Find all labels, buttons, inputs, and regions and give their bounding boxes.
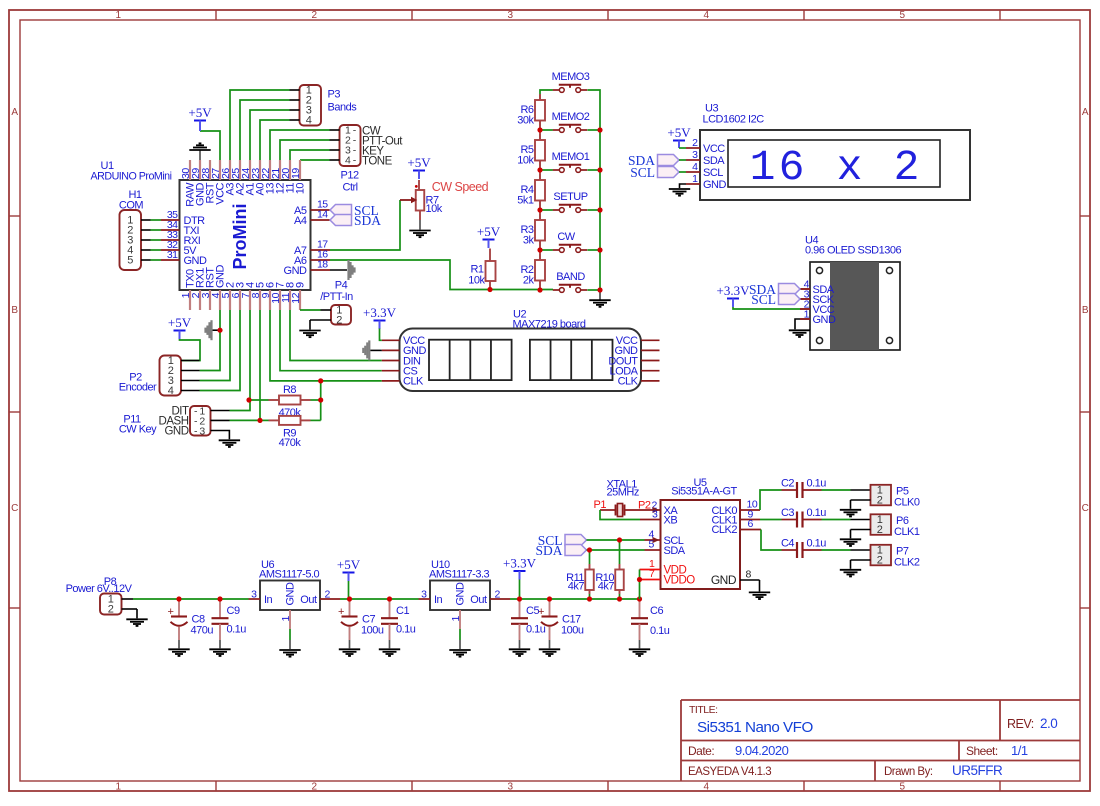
ground [189,143,210,160]
wire [151,220,162,260]
connector P4 /PTT-In [310,280,353,327]
svg-text:Si5351 Nano VFO: Si5351 Nano VFO [697,719,813,736]
push button CW [553,231,587,253]
capacitor C8 [168,599,214,640]
svg-text:C6: C6 [650,605,663,617]
svg-text:+5V: +5V [667,125,691,140]
svg-text:SDA: SDA [703,155,725,167]
push button SETUP [553,191,588,213]
net flag SCL [538,533,587,548]
svg-text:2k: 2k [523,275,535,287]
svg-text:CW: CW [557,231,575,243]
svg-text:SETUP: SETUP [553,191,587,203]
svg-text:5k1: 5k1 [517,195,534,207]
ground [840,530,861,546]
ground [789,319,810,337]
svg-text:CLK: CLK [403,376,424,388]
crystal XTAL1 25MHz [600,479,661,517]
svg-text:4: 4 [168,385,174,397]
svg-text:x: x [837,143,863,192]
svg-text:ARDUINO ProMini: ARDUINO ProMini [91,171,172,183]
power flag +5V [407,155,431,179]
svg-text:4: 4 [692,161,698,173]
svg-text:+: + [538,606,544,618]
power flag +5V [337,557,361,581]
svg-text:0.1u: 0.1u [526,624,546,636]
ground [279,640,300,657]
svg-text:P12: P12 [341,170,359,182]
svg-text:0.1u: 0.1u [807,507,827,519]
svg-text:EASYEDA V4.1.3: EASYEDA V4.1.3 [688,766,771,778]
wire [380,329,382,341]
svg-text:0.1u: 0.1u [807,478,827,490]
power flag +5V [168,315,192,339]
svg-text:2: 2 [336,315,342,327]
svg-text:2: 2 [894,143,920,192]
svg-text:ProMini: ProMini [230,204,250,270]
svg-text:TONE: TONE [362,156,393,168]
svg-text:CLK2: CLK2 [894,557,920,569]
svg-text:0.1u: 0.1u [650,625,670,637]
svg-text:Sheet:: Sheet: [966,744,998,758]
U2 pins [382,335,660,388]
wire [133,598,640,600]
svg-text:3: 3 [251,588,257,600]
svg-text:B: B [11,305,18,316]
junction [246,378,323,423]
net flag SDA [749,282,800,297]
svg-text:SDA: SDA [664,545,686,557]
wire [733,307,800,309]
svg-text:AMS1117-5.0: AMS1117-5.0 [259,569,320,581]
capacitor C5 [511,599,546,640]
resistor R3 [520,214,545,247]
svg-text:100u: 100u [561,625,584,637]
svg-text:CLK0: CLK0 [894,497,920,509]
svg-text:P3: P3 [328,89,341,101]
ground [629,640,650,656]
svg-text:In: In [434,594,443,606]
svg-text:10k: 10k [468,275,485,287]
svg-text:CW Speed: CW Speed [432,180,489,194]
svg-text:GND: GND [284,265,308,277]
svg-text:1: 1 [804,309,810,321]
wire [459,629,461,640]
node P1 [594,499,607,511]
svg-text:2: 2 [877,524,883,536]
wire [540,90,600,290]
U1 top pins [190,160,300,180]
regulator U10 AMS1117-3.3 [419,559,511,629]
ground [168,640,189,656]
svg-text:CLK2: CLK2 [711,524,737,536]
svg-text:18: 18 [317,259,328,271]
potentiometer R7 [400,180,443,220]
resistor R2 [520,254,545,287]
svg-text:2: 2 [108,604,114,616]
svg-text:0.1u: 0.1u [227,624,247,636]
svg-text:GND: GND [285,582,297,606]
connector P5 CLK0 [851,485,920,509]
U1 top pin names [185,182,307,207]
svg-text:C9: C9 [227,605,240,617]
svg-text:B: B [1082,305,1089,316]
U1 left pins [161,209,207,267]
wire [822,549,851,551]
svg-text:REV:: REV: [1007,717,1034,731]
svg-text:10k: 10k [517,155,534,167]
ground [589,290,610,307]
svg-text:+3.3V: +3.3V [717,283,751,298]
connector P6 CLK1 [851,514,920,538]
svg-text:CW Key: CW Key [119,423,157,435]
svg-text:Bands: Bands [328,102,358,114]
svg-text:VDDO: VDDO [664,575,696,587]
svg-text:1: 1 [280,616,292,622]
resistor R1 [468,249,495,290]
power flag +3.3V [717,283,751,307]
svg-text:100u: 100u [361,625,384,637]
push button BAND [553,271,587,293]
junction [487,287,492,292]
svg-text:2: 2 [325,588,331,600]
capacitor C1 [381,599,416,640]
svg-text:GND: GND [184,255,208,267]
svg-text:+: + [168,606,174,618]
resistor R9 [269,416,311,449]
title block [681,700,1080,781]
wire [180,339,201,361]
svg-text:1/1: 1/1 [1011,743,1028,758]
svg-text:C2: C2 [781,478,794,490]
svg-text:+5V: +5V [168,315,192,330]
svg-text:SCL: SCL [751,292,776,307]
svg-text:7: 7 [649,568,655,580]
svg-text:MEMO1: MEMO1 [552,151,590,163]
push button MEMO1 [552,151,590,173]
svg-text:In: In [264,594,273,606]
svg-text:- 3: - 3 [194,425,205,437]
resistor R4 [517,174,545,207]
svg-text:4: 4 [306,115,312,127]
svg-text:+5V: +5V [477,224,501,239]
svg-text:UR5FFR: UR5FFR [952,763,1003,778]
svg-text:Power 6V..12V: Power 6V..12V [66,583,133,595]
net flag SDA [535,543,586,558]
LCD U3 LCD1602 I2C [700,103,970,201]
svg-text:BAND: BAND [556,271,585,283]
wire [230,381,321,421]
svg-text:A: A [11,107,18,118]
net flag SCL [330,203,379,218]
U2 MAX7219 board [400,309,642,392]
U4 pins [800,279,836,326]
svg-text:6: 6 [748,518,754,530]
svg-text:12: 12 [290,292,302,303]
svg-text:R8: R8 [283,384,296,396]
ground [209,640,230,656]
svg-text:4k7: 4k7 [568,581,585,593]
svg-text:5: 5 [649,539,655,551]
ground [509,640,530,656]
node P2 [638,500,651,512]
power flag +5V [667,125,691,148]
svg-text:+3.3V: +3.3V [363,305,397,320]
ground [363,340,382,360]
U1 bottom pin names [185,265,307,289]
wire [330,200,553,290]
svg-text:0.1u: 0.1u [807,538,827,550]
junction [217,328,222,333]
push button MEMO3 [552,71,590,93]
capacitor C4 [781,538,826,559]
svg-text:/PTT-In: /PTT-In [320,291,353,303]
svg-text:4k7: 4k7 [598,581,615,593]
U1 bottom pin numbers [180,292,302,303]
resistor R6 [517,94,545,127]
U4 0.96 OLED SSD1306 [805,235,901,351]
wire [619,540,621,599]
ground [330,260,355,280]
ground [409,220,430,237]
capacitor C6 [631,599,670,640]
svg-text:MEMO3: MEMO3 [552,71,590,83]
ground [206,320,220,340]
svg-text:P1: P1 [594,499,607,511]
ground [749,580,770,599]
ground [126,609,147,626]
resistor R5 [517,134,545,167]
svg-text:2: 2 [692,137,698,149]
U5 left pins [640,500,696,587]
wire [200,310,382,421]
capacitor C2 [781,478,826,499]
wire [822,519,851,521]
svg-text:SCL: SCL [703,167,723,179]
svg-text:TITLE:: TITLE: [689,704,718,716]
svg-text:14: 14 [317,209,328,221]
svg-text:C: C [1082,503,1089,514]
resistor R10 [595,564,623,594]
svg-text:GND: GND [455,582,467,606]
svg-text:3: 3 [421,588,427,600]
svg-text:2: 2 [877,555,883,567]
connector P12 Ctrl [330,125,361,194]
ground [339,640,360,656]
svg-text:GND: GND [164,425,188,437]
U1 top pin numbers [180,168,302,179]
svg-text:+: + [338,606,344,618]
wire [587,540,645,599]
ground [840,560,861,576]
svg-text:4 -: 4 - [345,155,357,167]
U3 pins [686,137,727,191]
power flag +3.3V [503,556,537,580]
wire [600,510,640,520]
svg-text:+5V: +5V [188,105,212,120]
ground [539,640,560,656]
svg-text:AMS1117-3.3: AMS1117-3.3 [429,569,490,581]
svg-text:Date:: Date: [688,744,714,758]
junction [537,127,602,292]
ground [299,320,320,337]
wire [519,580,521,600]
svg-text:470k: 470k [279,437,302,449]
U1 right pins [284,199,330,277]
capacitor C3 [781,507,826,528]
svg-text:9: 9 [295,282,307,288]
svg-text:SCL: SCL [630,165,655,180]
op-amp U1 ARDUINO ProMini [91,160,311,290]
junction [176,596,642,601]
capacitor C17 [538,599,584,640]
svg-text:+5V: +5V [337,557,361,572]
svg-text:2: 2 [877,495,883,507]
ground [669,184,690,196]
wire [348,581,350,599]
connector P8 Power [66,576,137,616]
U1 bottom pins [190,290,300,310]
svg-text:A: A [1082,107,1089,118]
net flag SDA [628,153,686,168]
svg-text:MEMO2: MEMO2 [552,111,590,123]
svg-text:Out: Out [470,594,487,606]
connector P2 Encoder [119,355,200,397]
net flag SDA [330,213,381,228]
regulator U6 AMS1117-5.0 [249,559,341,629]
svg-text:C1: C1 [396,605,409,617]
value label CW Speed [432,180,489,194]
svg-text:A4: A4 [294,215,307,227]
power flag +5V [188,105,212,131]
connector P7 CLK2 [851,545,920,569]
svg-text:+5V: +5V [407,155,431,170]
svg-text:3: 3 [692,149,698,161]
net flag SCL [751,292,800,307]
ground [211,431,241,447]
wire [760,490,782,550]
svg-text:GND: GND [813,314,837,326]
svg-text:8: 8 [746,569,752,581]
ground [840,500,861,516]
svg-text:2.0: 2.0 [1040,716,1057,731]
svg-text:C: C [11,503,18,514]
wire [289,629,291,640]
svg-text:XB: XB [664,514,678,526]
svg-text:VCC: VCC [703,143,725,155]
resistor R8 [269,384,311,419]
svg-text:3: 3 [652,509,658,521]
svg-text:P2: P2 [638,500,651,512]
svg-text:1: 1 [750,143,776,192]
svg-text:10: 10 [295,183,307,195]
svg-text:SDA: SDA [354,213,381,228]
svg-text:GND: GND [703,179,727,191]
svg-text:C4: C4 [781,538,794,550]
power flag +5V [477,224,501,248]
svg-text:LCD1602 I2C: LCD1602 I2C [703,114,765,126]
connector P11 CW Key [119,405,230,437]
svg-text:2: 2 [495,588,501,600]
capacitor C9 [212,599,247,640]
push button MEMO2 [552,111,590,133]
svg-text:31: 31 [167,249,178,261]
svg-text:P4: P4 [335,280,348,292]
U5 right pins [711,499,761,587]
svg-text:1: 1 [450,616,462,622]
svg-text:CLK: CLK [618,376,639,388]
resistor R11 [566,564,594,594]
svg-text:25MHz: 25MHz [607,487,639,499]
svg-text:1: 1 [692,173,698,185]
wire [822,489,851,491]
svg-text:Si5351A-A-GT: Si5351A-A-GT [671,486,737,498]
svg-text:GND: GND [711,573,737,587]
svg-text:6: 6 [779,143,805,192]
svg-text:30k: 30k [517,115,534,127]
svg-text:0.1u: 0.1u [396,624,416,636]
svg-text:10k: 10k [426,203,443,215]
connector H1 COM [119,189,151,270]
wire [589,550,591,599]
svg-text:+3.3V: +3.3V [503,556,537,571]
junction [587,537,642,582]
svg-text:Ctrl: Ctrl [343,182,358,194]
svg-text:Drawn By:: Drawn By: [884,766,933,778]
svg-text:CLK1: CLK1 [894,526,920,538]
svg-text:9.04.2020: 9.04.2020 [735,743,789,758]
svg-text:SDA: SDA [535,543,562,558]
svg-text:5: 5 [127,255,133,267]
connector P3 Bands [290,85,358,127]
ground [449,640,470,657]
svg-text:470u: 470u [191,625,214,637]
ground [379,640,400,656]
svg-text:Out: Out [300,594,317,606]
power flag +3.3V [363,305,397,329]
IC U5 Si5351A-A-GT [661,477,741,589]
svg-text:19: 19 [290,168,302,179]
svg-text:Encoder: Encoder [119,382,157,394]
svg-text:3k: 3k [523,235,535,247]
svg-text:0.96 OLED SSD1306: 0.96 OLED SSD1306 [805,245,901,257]
net flag SCL [630,165,686,180]
capacitor C7 [338,599,384,640]
P12 signal labels [362,126,403,168]
wire [200,90,330,160]
svg-text:C3: C3 [781,507,794,519]
